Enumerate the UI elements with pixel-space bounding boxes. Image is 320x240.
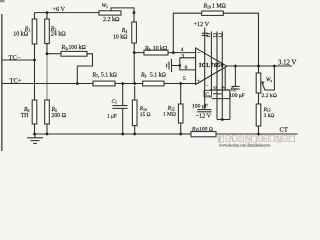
output row wire xyxy=(227,65,293,67)
potentiometer W1 wiper xyxy=(111,8,134,13)
R13 bottom lead xyxy=(258,126,260,134)
svg-text:3: 3 xyxy=(181,53,184,59)
svg-text:1 MΩ: 1 MΩ xyxy=(163,112,176,118)
resistor R14 body xyxy=(132,100,137,126)
svg-text:15 Ω: 15 Ω xyxy=(140,112,151,118)
svg-text:C2: C2 xyxy=(205,93,210,98)
op-amp pin 13 wire through xyxy=(216,31,218,93)
op-amp U1 triangle xyxy=(196,48,227,85)
svg-text:100 μF: 100 μF xyxy=(229,93,244,99)
wire R5 bottom xyxy=(46,124,48,134)
op-amp supply pin wire (+12V to -12V cap) xyxy=(204,28,206,110)
svg-text:+12 V: +12 V xyxy=(194,21,210,28)
watermark xyxy=(218,136,294,148)
wire TC+ row xyxy=(2,83,93,85)
svg-text:24 kΩ: 24 kΩ xyxy=(51,32,67,38)
resistor R13 body xyxy=(256,104,261,126)
resistor R4 body xyxy=(132,22,137,43)
svg-text:R13: R13 xyxy=(263,107,271,113)
svg-text:W2: W2 xyxy=(266,77,273,83)
svg-text:3 kΩ: 3 kΩ xyxy=(264,113,275,119)
svg-text:10 kΩ: 10 kΩ xyxy=(113,35,128,41)
capacitor C1 plates xyxy=(112,105,127,107)
wire between R7 and R9 xyxy=(115,83,143,85)
wires caps to bottom U xyxy=(216,94,218,120)
svg-text:+: + xyxy=(197,79,200,85)
svg-text:100 μF: 100 μF xyxy=(192,103,208,109)
svg-text:12: 12 xyxy=(219,32,224,37)
ground rail right part xyxy=(216,133,298,135)
svg-text:R15100 Ω: R15100 Ω xyxy=(191,126,213,132)
wire R4 node to R6 xyxy=(134,52,144,54)
svg-text:C1: C1 xyxy=(112,99,118,105)
svg-text:R6 10 kΩ: R6 10 kΩ xyxy=(144,46,168,52)
resistor R10 body xyxy=(202,11,224,15)
resistor R6 body xyxy=(144,50,168,55)
resistor R5 200 body xyxy=(45,100,50,124)
svg-text:2.2 kΩ: 2.2 kΩ xyxy=(262,93,277,99)
capacitor C4 plates xyxy=(197,109,211,111)
wire R1 bottom to TH column xyxy=(34,44,36,100)
svg-text:TC−: TC− xyxy=(9,54,21,61)
resistor R12 bottom lead xyxy=(180,123,182,134)
svg-text:+6 V: +6 V xyxy=(53,6,66,13)
ground rail left part xyxy=(35,133,192,135)
svg-text:4: 4 xyxy=(181,47,184,53)
W2 top lead xyxy=(258,66,260,73)
resistor R3 100k body xyxy=(61,51,87,56)
resistor R4 bottom lead xyxy=(133,43,135,53)
svg-text:R3,100 kΩ: R3,100 kΩ xyxy=(61,45,87,51)
svg-text:−12 V: −12 V xyxy=(196,113,212,120)
wire R2 bottom xyxy=(46,44,48,54)
svg-text:6: 6 xyxy=(185,65,188,71)
resistor R15 body xyxy=(191,132,216,137)
W2 wiper wire xyxy=(264,66,274,90)
op-amp bottom pin extra xyxy=(224,67,226,90)
wire R3 zigzag to TC+ row xyxy=(77,54,92,84)
wire R2 node to R3 xyxy=(47,53,61,55)
svg-text:R9 5.1 kΩ: R9 5.1 kΩ xyxy=(140,72,167,78)
wire feedback right and down xyxy=(223,13,258,66)
svg-text:R10 1 MΩ: R10 1 MΩ xyxy=(203,3,227,9)
svg-text:5: 5 xyxy=(183,76,186,82)
capacitor C2 plates xyxy=(210,89,231,91)
wire R12 top lead xyxy=(180,84,182,105)
U bottom wire xyxy=(217,119,230,121)
wire TC- lead xyxy=(2,59,34,61)
svg-text:−: − xyxy=(197,50,200,56)
resistor R7 body xyxy=(93,81,115,86)
svg-text:200 Ω: 200 Ω xyxy=(52,113,67,119)
C2 label box xyxy=(204,90,212,97)
potentiometer W2 body xyxy=(256,73,261,93)
op-amp pin 12 wire through xyxy=(221,31,223,98)
pin3 loop wire xyxy=(180,58,196,70)
resistor R1 body xyxy=(32,19,37,44)
wire R1 top lead xyxy=(34,13,36,19)
resistor R12 body xyxy=(178,104,183,123)
svg-text:R7, 5.1 kΩ: R7, 5.1 kΩ xyxy=(92,72,118,78)
capacitor C5 lead from output xyxy=(234,66,236,86)
svg-text:www.elecfans.com dianzifashaoy: www.elecfans.com dianzifashaoyou xyxy=(219,142,270,147)
capacitor C5 plates xyxy=(231,85,239,87)
svg-text:1 μF: 1 μF xyxy=(107,113,117,119)
+6V rail wire xyxy=(35,12,100,14)
capacitor C1 top lead xyxy=(122,84,124,106)
wire TH bottom xyxy=(34,124,36,134)
W2 wiper arrowhead xyxy=(261,81,264,84)
guard ground wire xyxy=(172,65,180,67)
svg-text:10 kΩ: 10 kΩ xyxy=(13,32,29,38)
W2 to R13 wire xyxy=(258,93,260,104)
resistor R9 body xyxy=(143,81,164,86)
left page border xyxy=(1,14,3,151)
svg-text:−: − xyxy=(206,85,209,90)
svg-text:3.12 V: 3.12 V xyxy=(278,60,296,67)
ground bar3 xyxy=(33,142,37,144)
wire R6 to pin 4 xyxy=(168,52,196,54)
svg-text:2.2 kΩ: 2.2 kΩ xyxy=(103,17,120,23)
ground stem xyxy=(34,134,36,138)
resistor R4 top lead xyxy=(133,13,135,22)
potentiometer W1 body xyxy=(99,11,121,15)
wire feedback up xyxy=(173,13,201,52)
op-amp pin 14 wire through xyxy=(210,31,212,90)
resistor R14 top lead xyxy=(134,86,136,100)
wire R9 to pin5 xyxy=(164,83,196,85)
capacitor C1 bottom lead xyxy=(122,108,124,134)
wire R4 node down to R7/R9 row xyxy=(133,53,135,84)
svg-text:CT: CT xyxy=(280,126,288,133)
ground bar1 xyxy=(27,137,43,139)
thermistor RT body xyxy=(32,100,37,124)
svg-text:ICL7650: ICL7650 xyxy=(199,63,224,69)
ground bar2 xyxy=(31,140,40,142)
svg-text:TC+: TC+ xyxy=(10,77,22,84)
svg-text:TH: TH xyxy=(21,113,30,119)
wire R2 top lead xyxy=(46,13,48,19)
resistor R2 body xyxy=(45,19,50,44)
pin 11 dashes xyxy=(202,32,208,34)
svg-text:14: 14 xyxy=(207,32,212,37)
guard ground bars xyxy=(171,59,173,72)
resistor R14 bottom lead xyxy=(134,126,136,134)
svg-text:13: 13 xyxy=(213,32,218,37)
